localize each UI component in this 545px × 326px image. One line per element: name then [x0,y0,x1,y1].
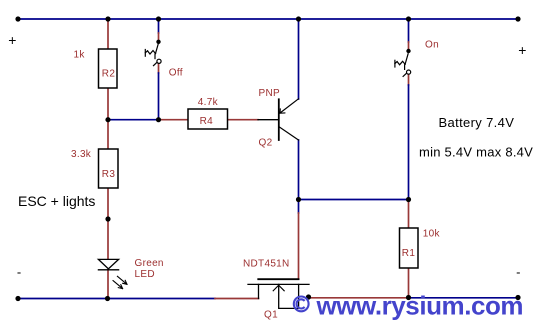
wire Q2 base pin [258,119,279,121]
node top-right terminal [515,16,520,21]
wire bottom rail mid right (red) [309,297,409,299]
svg-text:R1: R1 [402,248,416,259]
transistor Q2 (PNP) [279,99,299,140]
wire R2 bottom [107,88,109,120]
svg-text:Q1: Q1 [264,310,278,321]
wire mid-low row [299,199,409,201]
wire switch-off column lower [158,64,160,73]
node R3/LED junction [105,216,110,221]
wire bottom gate segment (red) [215,298,259,300]
wire switch-off column upper [158,19,160,33]
wire R1 bottom [408,268,410,298]
wire R3 top [107,120,109,149]
svg-text:Battery 7.4V: Battery 7.4V [439,115,515,130]
svg-text:Off: Off [169,68,183,79]
watermark copyright symbol [294,297,309,312]
svg-text:10k: 10k [423,229,441,240]
svg-text:1k: 1k [74,50,86,61]
switch SW-Off [145,43,161,66]
svg-text:R2: R2 [102,68,116,79]
LED D1 (green) [98,259,127,288]
wire R2 top [107,19,109,49]
resistor R1 [400,228,419,268]
wire Q2 emitter to top rail [298,19,300,99]
node switch-off pin [156,40,160,44]
node Q2 collector junction [296,197,301,202]
wire bottom rail right (blue) [409,297,519,299]
wire Q1 drain up [298,200,300,214]
node switch-off/R4 junction [156,117,161,122]
wire LED top [107,219,109,259]
svg-text:Green: Green [135,258,164,269]
svg-text:On: On [425,39,439,50]
svg-text:-: - [17,265,21,280]
svg-text:4.7k: 4.7k [198,97,219,108]
node switch-on pin [406,49,410,53]
wire R1 top [408,200,410,229]
switch SW-On [395,54,411,77]
node bottom-left terminal [15,296,20,301]
node Q1 source/bottom rail [306,294,311,299]
svg-text:-: - [516,265,520,280]
svg-text:NDT451N: NDT451N [243,259,290,270]
node Q2 emitter/top rail [296,16,301,21]
svg-text:ESC + lights: ESC + lights [18,193,95,209]
node R2/top rail [105,16,110,21]
node bottom-right terminal [515,295,520,300]
wire R4 right [228,119,259,121]
svg-text:R3: R3 [102,169,116,180]
node top-left terminal [15,16,20,21]
node LED/bottom rail [105,296,110,301]
svg-text:+: + [8,32,16,48]
node switch-on/top rail [406,16,411,21]
svg-text:www.rysium.com: www.rysium.com [316,290,524,320]
svg-text:Q2: Q2 [259,137,273,148]
wire bottom rail left (blue) [18,298,215,300]
svg-text:min 5.4V max 8.4V: min 5.4V max 8.4V [419,145,533,160]
node R1/bottom rail [406,295,411,300]
wire top rail + [18,18,518,20]
wire mid row (node R2/R3 to switch) [108,119,159,121]
svg-text:PNP: PNP [259,88,280,99]
node R2/R3 junction [105,117,110,122]
svg-text:+: + [518,42,526,58]
svg-text:3.3k: 3.3k [71,149,92,160]
wire switch-on column lower [408,75,410,85]
node switch-off/top rail [156,16,161,21]
resistor R4 [188,109,228,129]
wire switch-on column upper [408,19,410,42]
svg-text:LED: LED [135,269,155,280]
transistor Q1 (NDT451N MOSFET) [248,279,309,308]
wire R3 bottom [107,188,109,219]
svg-text:R4: R4 [200,116,214,127]
resistor R3 [99,149,119,188]
wire R4 left [159,119,189,121]
node switch-on/R1 junction [406,197,411,202]
resistor R2 [99,49,118,88]
wire Q2 collector down [298,140,300,200]
wire LED bottom [107,270,109,299]
